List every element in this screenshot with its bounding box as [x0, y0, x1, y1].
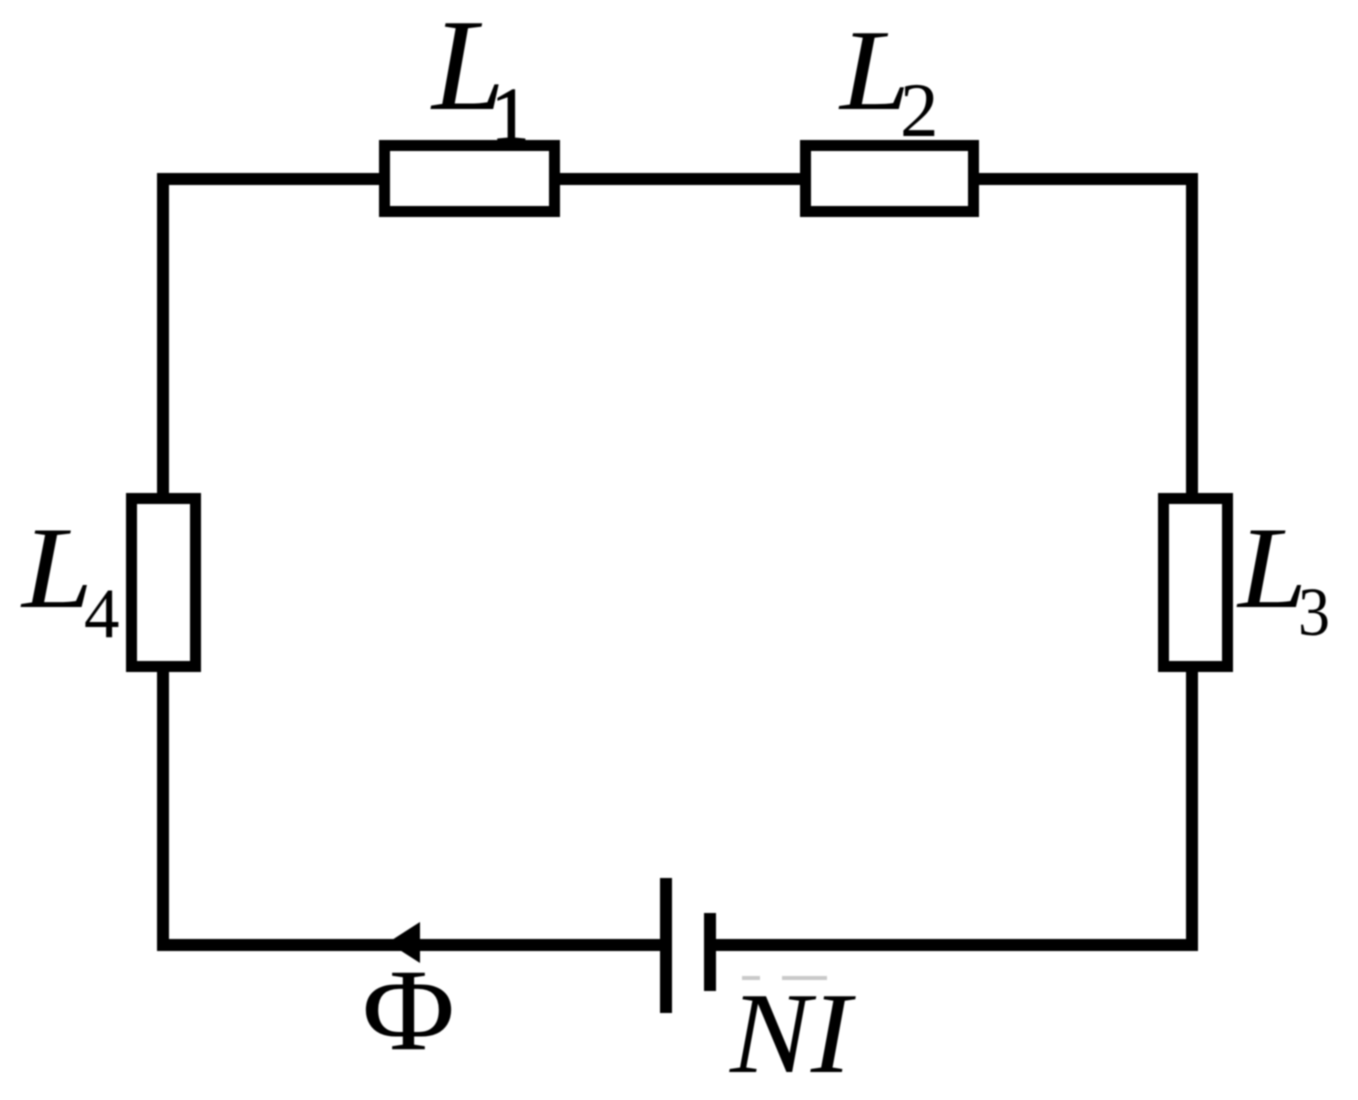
svg-text:3: 3: [1298, 574, 1330, 650]
svg-text:L: L: [20, 504, 93, 633]
svg-text:Φ: Φ: [362, 946, 455, 1075]
svg-text:NI: NI: [729, 970, 857, 1098]
svg-text:2: 2: [900, 67, 939, 153]
svg-text:4: 4: [84, 575, 120, 653]
svg-text:L: L: [1236, 504, 1307, 633]
svg-text:1: 1: [491, 72, 530, 158]
